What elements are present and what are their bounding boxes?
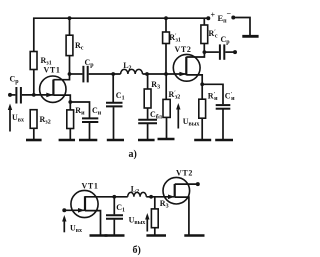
svg-text:а): а) bbox=[129, 149, 137, 160]
resistor R3 bbox=[144, 89, 151, 108]
capacitor Cp (output) bbox=[219, 44, 221, 59]
svg-text:б): б) bbox=[133, 245, 141, 256]
transistor VT1 bbox=[40, 76, 66, 102]
wire source node to Cи' bbox=[202, 84, 223, 104]
wire R3 to Cбл bbox=[147, 108, 149, 119]
Uвх annotation arrow b bbox=[63, 218, 65, 233]
svg-text:C1: C1 bbox=[116, 203, 125, 214]
svg-text:Cр: Cр bbox=[85, 58, 95, 69]
ground under C1 b bbox=[105, 234, 125, 237]
wire L2 to VT2 gate bbox=[143, 73, 187, 75]
svg-text:Cр: Cр bbox=[10, 75, 20, 86]
wire Rи to ground bbox=[69, 129, 71, 140]
resistor Rc bbox=[66, 35, 73, 55]
inductor L2 bbox=[121, 69, 143, 74]
wire VT2 drain bbox=[186, 52, 204, 57]
capacitor Cи bbox=[82, 117, 98, 119]
node C1 junction b bbox=[112, 195, 116, 199]
resistor R3 b bbox=[151, 209, 158, 228]
ground under Rи bbox=[59, 139, 75, 142]
Uвых annotation arrow b bbox=[146, 216, 148, 232]
wire input to VT1 gate b bbox=[64, 209, 85, 211]
Uвых annotation arrow (a) bbox=[177, 106, 179, 129]
wire Rи' to ground bbox=[201, 118, 203, 139]
node gate divider junction VT2 bbox=[164, 72, 168, 76]
capacitor C1 bbox=[106, 102, 123, 104]
capacitor Cp (input) bbox=[15, 87, 17, 104]
capacitor Cp (interstage) bbox=[82, 66, 84, 83]
wire Rз1' to gate wire bbox=[165, 44, 167, 75]
wire drain node to output Cp bbox=[204, 51, 219, 53]
svg-text:VT2: VT2 bbox=[176, 169, 193, 178]
svg-text:R′с: R′с bbox=[209, 29, 218, 40]
svg-text:−: − bbox=[227, 9, 232, 18]
node gate divider junction bbox=[32, 93, 36, 97]
wire C1 to ground b bbox=[113, 220, 115, 235]
wire rail to Rc bbox=[69, 18, 71, 35]
wire input to Cp bbox=[10, 94, 15, 96]
wire C1 to ground bbox=[113, 107, 115, 139]
wire VT2 source bbox=[186, 75, 202, 84]
ground under Cи' bbox=[215, 139, 233, 142]
output terminal b bbox=[196, 182, 200, 186]
svg-text:R′з1: R′з1 bbox=[169, 33, 181, 44]
input terminal bbox=[8, 93, 12, 97]
wire rail to Rc' bbox=[203, 18, 205, 25]
wire rail to Rз1' bbox=[165, 18, 167, 32]
wire VT1 drain bbox=[53, 74, 69, 80]
wire top supply rail bbox=[34, 18, 209, 51]
transistor VT2 b bbox=[163, 177, 190, 204]
node rail-Rz1' junction bbox=[164, 16, 168, 20]
svg-text:L2: L2 bbox=[123, 61, 131, 72]
wire Cи' to ground bbox=[222, 110, 224, 140]
wire source node to Cи bbox=[70, 102, 89, 118]
svg-text:+: + bbox=[211, 11, 216, 20]
svg-text:R′и: R′и bbox=[208, 92, 218, 103]
ground under Cи bbox=[79, 139, 97, 142]
node +Ep terminal bbox=[206, 16, 210, 20]
resistor Rз2' bbox=[163, 99, 170, 117]
wire VT2 source b bbox=[175, 197, 189, 234]
wire Rз2' to ground bbox=[166, 117, 168, 138]
svg-text:Uвх: Uвх bbox=[70, 224, 82, 235]
svg-text:Rз2: Rз2 bbox=[40, 115, 51, 126]
wire drain node to Cp bbox=[70, 73, 83, 75]
wire VT1 source bbox=[53, 95, 70, 102]
node -Ep terminal bbox=[231, 16, 235, 20]
ground under Rз2' bbox=[158, 138, 175, 141]
ground under R3 b bbox=[146, 234, 166, 237]
wire R3 top bbox=[147, 74, 149, 89]
wire Cp to C1 node bbox=[89, 73, 121, 75]
ground VT2 source b bbox=[184, 234, 204, 237]
resistor Rз1 bbox=[30, 52, 37, 70]
ground under Rз2 bbox=[26, 139, 42, 142]
wire R3 top b bbox=[154, 197, 156, 209]
svg-text:Cр: Cр bbox=[221, 35, 231, 46]
wire R3 to ground b bbox=[154, 228, 156, 235]
wire Rc' to drain node bbox=[203, 44, 205, 53]
ground under Rи' bbox=[194, 139, 211, 142]
svg-text:VT1: VT1 bbox=[82, 182, 99, 191]
capacitor Cбл bbox=[138, 119, 157, 121]
resistor Rc' bbox=[201, 25, 208, 44]
svg-text:L2: L2 bbox=[131, 185, 139, 196]
node R3 junction bbox=[145, 72, 149, 76]
capacitor Cи' bbox=[216, 104, 231, 106]
svg-text:R′з2: R′з2 bbox=[169, 90, 181, 101]
input terminal b bbox=[62, 208, 66, 212]
resistor Rз2 bbox=[30, 110, 37, 129]
node C1 junction bbox=[111, 72, 115, 76]
wire Cбл to ground bbox=[147, 124, 149, 139]
wire VT1 source b bbox=[85, 211, 101, 235]
wire source node to Rи bbox=[69, 102, 71, 110]
wire C1 stub b bbox=[113, 197, 115, 215]
ground under C1 bbox=[107, 139, 124, 142]
svg-text:Uвых: Uвых bbox=[183, 117, 200, 128]
inductor L2 b bbox=[128, 192, 147, 196]
transistor VT1 b bbox=[71, 190, 98, 217]
output terminal bbox=[233, 50, 237, 54]
capacitor C1 b bbox=[106, 214, 123, 216]
wire Cи to ground bbox=[89, 123, 91, 139]
wire source node to Rи' bbox=[201, 84, 203, 99]
svg-text:VT2: VT2 bbox=[175, 45, 192, 54]
wire Cp to output terminal bbox=[225, 51, 235, 53]
svg-text:Rи: Rи bbox=[75, 106, 85, 117]
node VT2 drain bbox=[203, 50, 207, 54]
node VT2 source bbox=[200, 82, 204, 86]
wire Ep to ground bbox=[233, 18, 250, 36]
resistor Rз1' bbox=[163, 32, 170, 44]
wire Rз2 to ground bbox=[33, 128, 35, 139]
wire Rc to drain node bbox=[69, 56, 71, 74]
svg-text:Uвых: Uвых bbox=[129, 216, 146, 227]
svg-text:C′и: C′и bbox=[225, 92, 235, 103]
resistor Rи bbox=[67, 110, 74, 129]
svg-text:VT1: VT1 bbox=[44, 66, 61, 75]
node R3 junction b bbox=[149, 195, 153, 199]
wire VT2 drain b bbox=[175, 183, 198, 185]
wire Cp to VT1 gate bbox=[22, 94, 54, 96]
ground under Cбл bbox=[138, 139, 155, 142]
transistor VT2 bbox=[173, 54, 200, 81]
node VT1 source bbox=[68, 100, 72, 104]
svg-text:Cбл: Cбл bbox=[150, 110, 163, 121]
Uвх annotation arrow bbox=[9, 106, 11, 132]
node rail-Rc junction bbox=[68, 16, 72, 20]
svg-text:Rс: Rс bbox=[75, 41, 84, 52]
svg-text:Cи: Cи bbox=[92, 106, 102, 117]
svg-text:R3: R3 bbox=[151, 80, 160, 91]
wire C1 stub bbox=[112, 74, 114, 102]
ground VT1 source b bbox=[90, 234, 108, 237]
ground Ep bbox=[242, 35, 258, 38]
wire gate node to Rз2' bbox=[165, 74, 167, 99]
resistor Rи' bbox=[199, 99, 206, 118]
svg-text:Uвх: Uвх bbox=[12, 113, 24, 124]
svg-text:C1: C1 bbox=[116, 91, 125, 102]
node VT1 drain bbox=[68, 72, 72, 76]
wire L2 to VT2 gate b bbox=[146, 196, 174, 198]
wire VT1 drain b bbox=[85, 196, 128, 198]
wire Rз1 to gate node bbox=[33, 70, 35, 95]
